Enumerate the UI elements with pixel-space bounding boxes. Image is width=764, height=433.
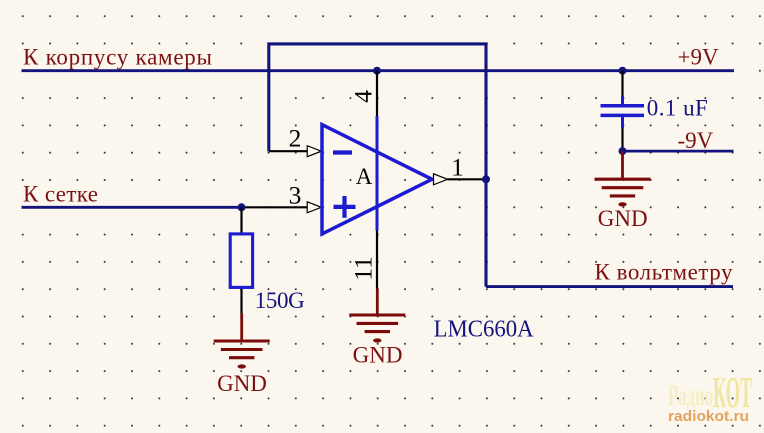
wire: К сетке rail <box>22 206 242 209</box>
svg-text:11: 11 <box>348 256 377 281</box>
wire: pin 1 output <box>447 178 486 180</box>
svg-text:+9V: +9V <box>678 44 719 69</box>
wire: pin 4 <box>376 71 378 116</box>
pin 3 arrow <box>307 202 321 213</box>
svg-text:GND: GND <box>353 343 403 368</box>
wire: -9V <box>623 150 734 153</box>
resistor R1 body (150G) <box>230 234 252 288</box>
wire: feedback loop and output vertical <box>269 44 486 287</box>
svg-text:К корпусу камеры: К корпусу камеры <box>23 44 212 69</box>
junction node: capacitor / -9V / ground <box>619 147 627 155</box>
wire: +9V / camera-body rail <box>22 69 735 72</box>
svg-text:150G: 150G <box>255 288 305 313</box>
output pin arrow <box>434 174 448 185</box>
svg-text:1: 1 <box>451 152 464 181</box>
svg-text:radiokot.ru: radiokot.ru <box>668 408 749 425</box>
svg-text:К вольтметру: К вольтметру <box>595 260 734 285</box>
svg-text:0.1 uF: 0.1 uF <box>647 96 708 121</box>
wire: К вольтметру line <box>486 285 733 288</box>
op-amp A power stub <box>376 116 379 231</box>
svg-text:2: 2 <box>289 124 302 153</box>
watermark radiokot logo <box>668 368 752 425</box>
wire: pin 11 <box>376 231 378 289</box>
svg-text:3: 3 <box>289 181 302 210</box>
pin 2 arrow <box>307 146 321 157</box>
ground symbol (right, at -9V) <box>595 151 651 206</box>
resistor R1 leads <box>240 207 242 313</box>
op-amp inverting input marker (minus) <box>333 150 352 154</box>
capacitor C1 plates (0.1 uF) <box>601 106 645 116</box>
junction node: output / vertical wire <box>482 175 490 183</box>
svg-text:A: A <box>356 164 373 189</box>
wire: pin 3 <box>242 206 308 208</box>
svg-text:-9V: -9V <box>678 128 714 153</box>
svg-text:GND: GND <box>217 371 267 396</box>
svg-text:GND: GND <box>598 206 648 231</box>
junction node: grid rail / resistor <box>238 203 246 211</box>
wire: pin 2 <box>269 150 308 152</box>
capacitor C1 leads <box>621 71 623 151</box>
op-amp U1 body <box>322 125 432 234</box>
ground symbol (pin 11) <box>349 289 405 343</box>
ground symbol (under resistor) <box>214 314 270 369</box>
op-amp non-inverting input marker (plus) <box>334 196 356 218</box>
junction node: rail / pin 4 <box>373 67 381 75</box>
junction node: rail / capacitor <box>619 67 627 75</box>
svg-text:К сетке: К сетке <box>23 182 98 207</box>
svg-text:LMC660A: LMC660A <box>434 316 535 342</box>
svg-text:4: 4 <box>348 90 377 103</box>
